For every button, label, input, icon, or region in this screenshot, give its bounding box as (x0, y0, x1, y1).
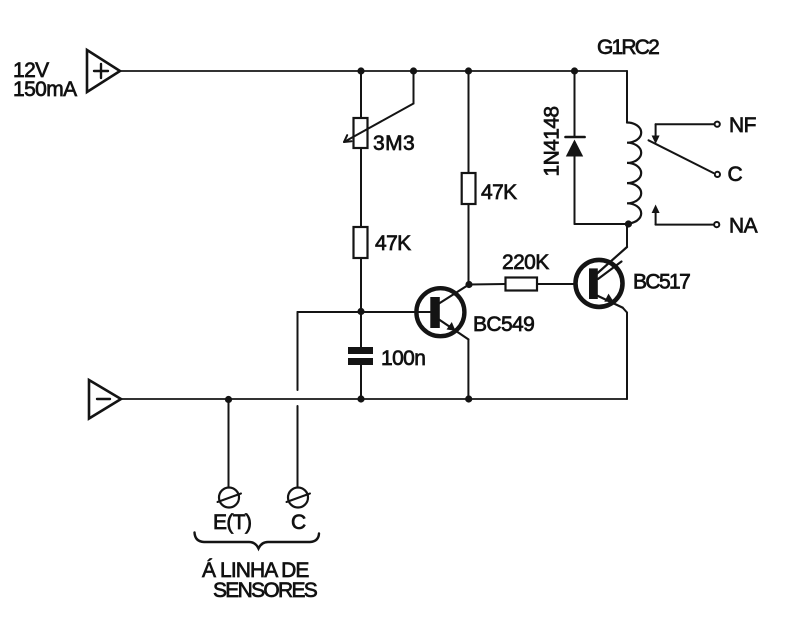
relay contact NA (652, 205, 720, 228)
relay contact C (715, 172, 720, 177)
transistor Q1 BC549 (416, 285, 469, 400)
transistor Q2 BC517 (576, 224, 628, 313)
wire top rail (120, 70, 627, 72)
node top rail at diode (571, 67, 578, 74)
relay contact NF (652, 122, 720, 144)
svg-text:BC549: BC549 (473, 313, 534, 336)
resistor 47K (right) body (462, 173, 476, 204)
svg-text:NA: NA (729, 215, 758, 238)
wire C-terminal riser lower (crosses rail without joining) (297, 406, 299, 488)
brace a linha de sensores (195, 533, 320, 549)
svg-text:C: C (728, 163, 743, 186)
resistor 220K body (506, 278, 538, 291)
node coil bottom (625, 220, 632, 227)
wire rail to 47K right (468, 71, 470, 173)
supply - terminal triangle (89, 380, 121, 419)
svg-text:G1RC2: G1RC2 (597, 36, 659, 59)
wire E(T) drop (228, 400, 230, 488)
svg-text:1N4148: 1N4148 (541, 107, 564, 177)
node top rail at trimmer (357, 67, 364, 74)
svg-text:220K: 220K (502, 251, 549, 274)
resistor 47K (left) body (354, 227, 368, 258)
svg-text:3M3: 3M3 (373, 132, 415, 155)
svg-text:NF: NF (729, 114, 756, 137)
capacitor C1 100n (348, 312, 373, 400)
node rail at BC549 emitter (465, 395, 472, 402)
wire C-terminal riser upper (297, 312, 299, 390)
wire 220K to BC517 base (537, 283, 576, 285)
trimmer wiper arm (344, 71, 414, 142)
svg-text:E(T): E(T) (213, 511, 251, 534)
svg-text:150mA: 150mA (13, 78, 77, 101)
node top rail at 47K right (465, 67, 472, 74)
wire node to 220K (469, 283, 506, 286)
node top rail at wiper (410, 67, 417, 74)
supply + terminal triangle (87, 50, 120, 92)
trimmer R1 3M3 body (354, 118, 368, 148)
wire rail to trimmer body (360, 71, 362, 118)
node rail at capacitor (357, 395, 364, 402)
svg-text:47K: 47K (375, 232, 411, 255)
wire 47K right to collector node (468, 204, 470, 285)
svg-text:C: C (291, 511, 306, 534)
svg-text:BC517: BC517 (633, 271, 690, 294)
diode D1 1N4148 (566, 71, 629, 224)
wire top-right corner to relay coil (626, 71, 628, 123)
terminal C (287, 488, 311, 508)
svg-text:47K: 47K (481, 181, 517, 204)
node rail at E(T) (225, 396, 232, 403)
wire base row horizontal (298, 311, 431, 313)
svg-text:SENSORES: SENSORES (213, 579, 318, 602)
label 12V 150mA (13, 59, 77, 101)
terminal E(T) (218, 488, 242, 508)
node BC549 collector (465, 281, 472, 288)
wire 47K to base node (360, 258, 362, 312)
node base row (357, 308, 364, 315)
wire trimmer to 47K (360, 148, 362, 227)
relay K1 coil (627, 123, 641, 224)
wire ground rail (121, 398, 627, 400)
wire rail corner up to BC517 emitter (626, 313, 628, 400)
svg-text:100n: 100n (381, 347, 425, 370)
relay lever (649, 140, 714, 173)
